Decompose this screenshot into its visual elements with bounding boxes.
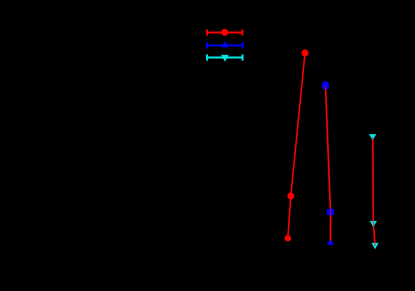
- series 3 marker point 1: cyan triangle-down: [369, 134, 376, 140]
- series 2 marker point 2: blue square with cap: [327, 208, 334, 215]
- series 3 marker point 2: cyan triangle-down: [370, 221, 377, 227]
- legend entry 1: red circle marker: [221, 29, 228, 36]
- series 1 marker point 2: red circle: [287, 193, 294, 200]
- series 2 marker point 1: blue blob: [322, 81, 329, 90]
- series 3 line overlay crossing markers: [373, 137, 375, 246]
- legend entry 2: blue triangle-up marker: [221, 41, 229, 47]
- series 3 marker point 3: cyan triangle-down: [371, 243, 378, 249]
- series 2 line (red connecting blue markers): [326, 86, 331, 243]
- series 2 marker point 3: blue triangle-up: [327, 239, 334, 245]
- legend entry 3: cyan errorbar line: [207, 54, 243, 60]
- series 1 marker point 1: red circle: [301, 49, 308, 56]
- series 1 marker point 3: red circle: [285, 235, 292, 242]
- legend entry 2: blue errorbar line: [207, 42, 243, 48]
- legend entry 1: red errorbar line: [207, 29, 242, 35]
- series 3 line (red connecting cyan markers): [373, 137, 375, 246]
- series 1 line (red): [288, 53, 305, 238]
- legend entry 3: cyan triangle-down marker: [221, 55, 229, 62]
- series 2 line overlay crossing markers: [326, 86, 331, 243]
